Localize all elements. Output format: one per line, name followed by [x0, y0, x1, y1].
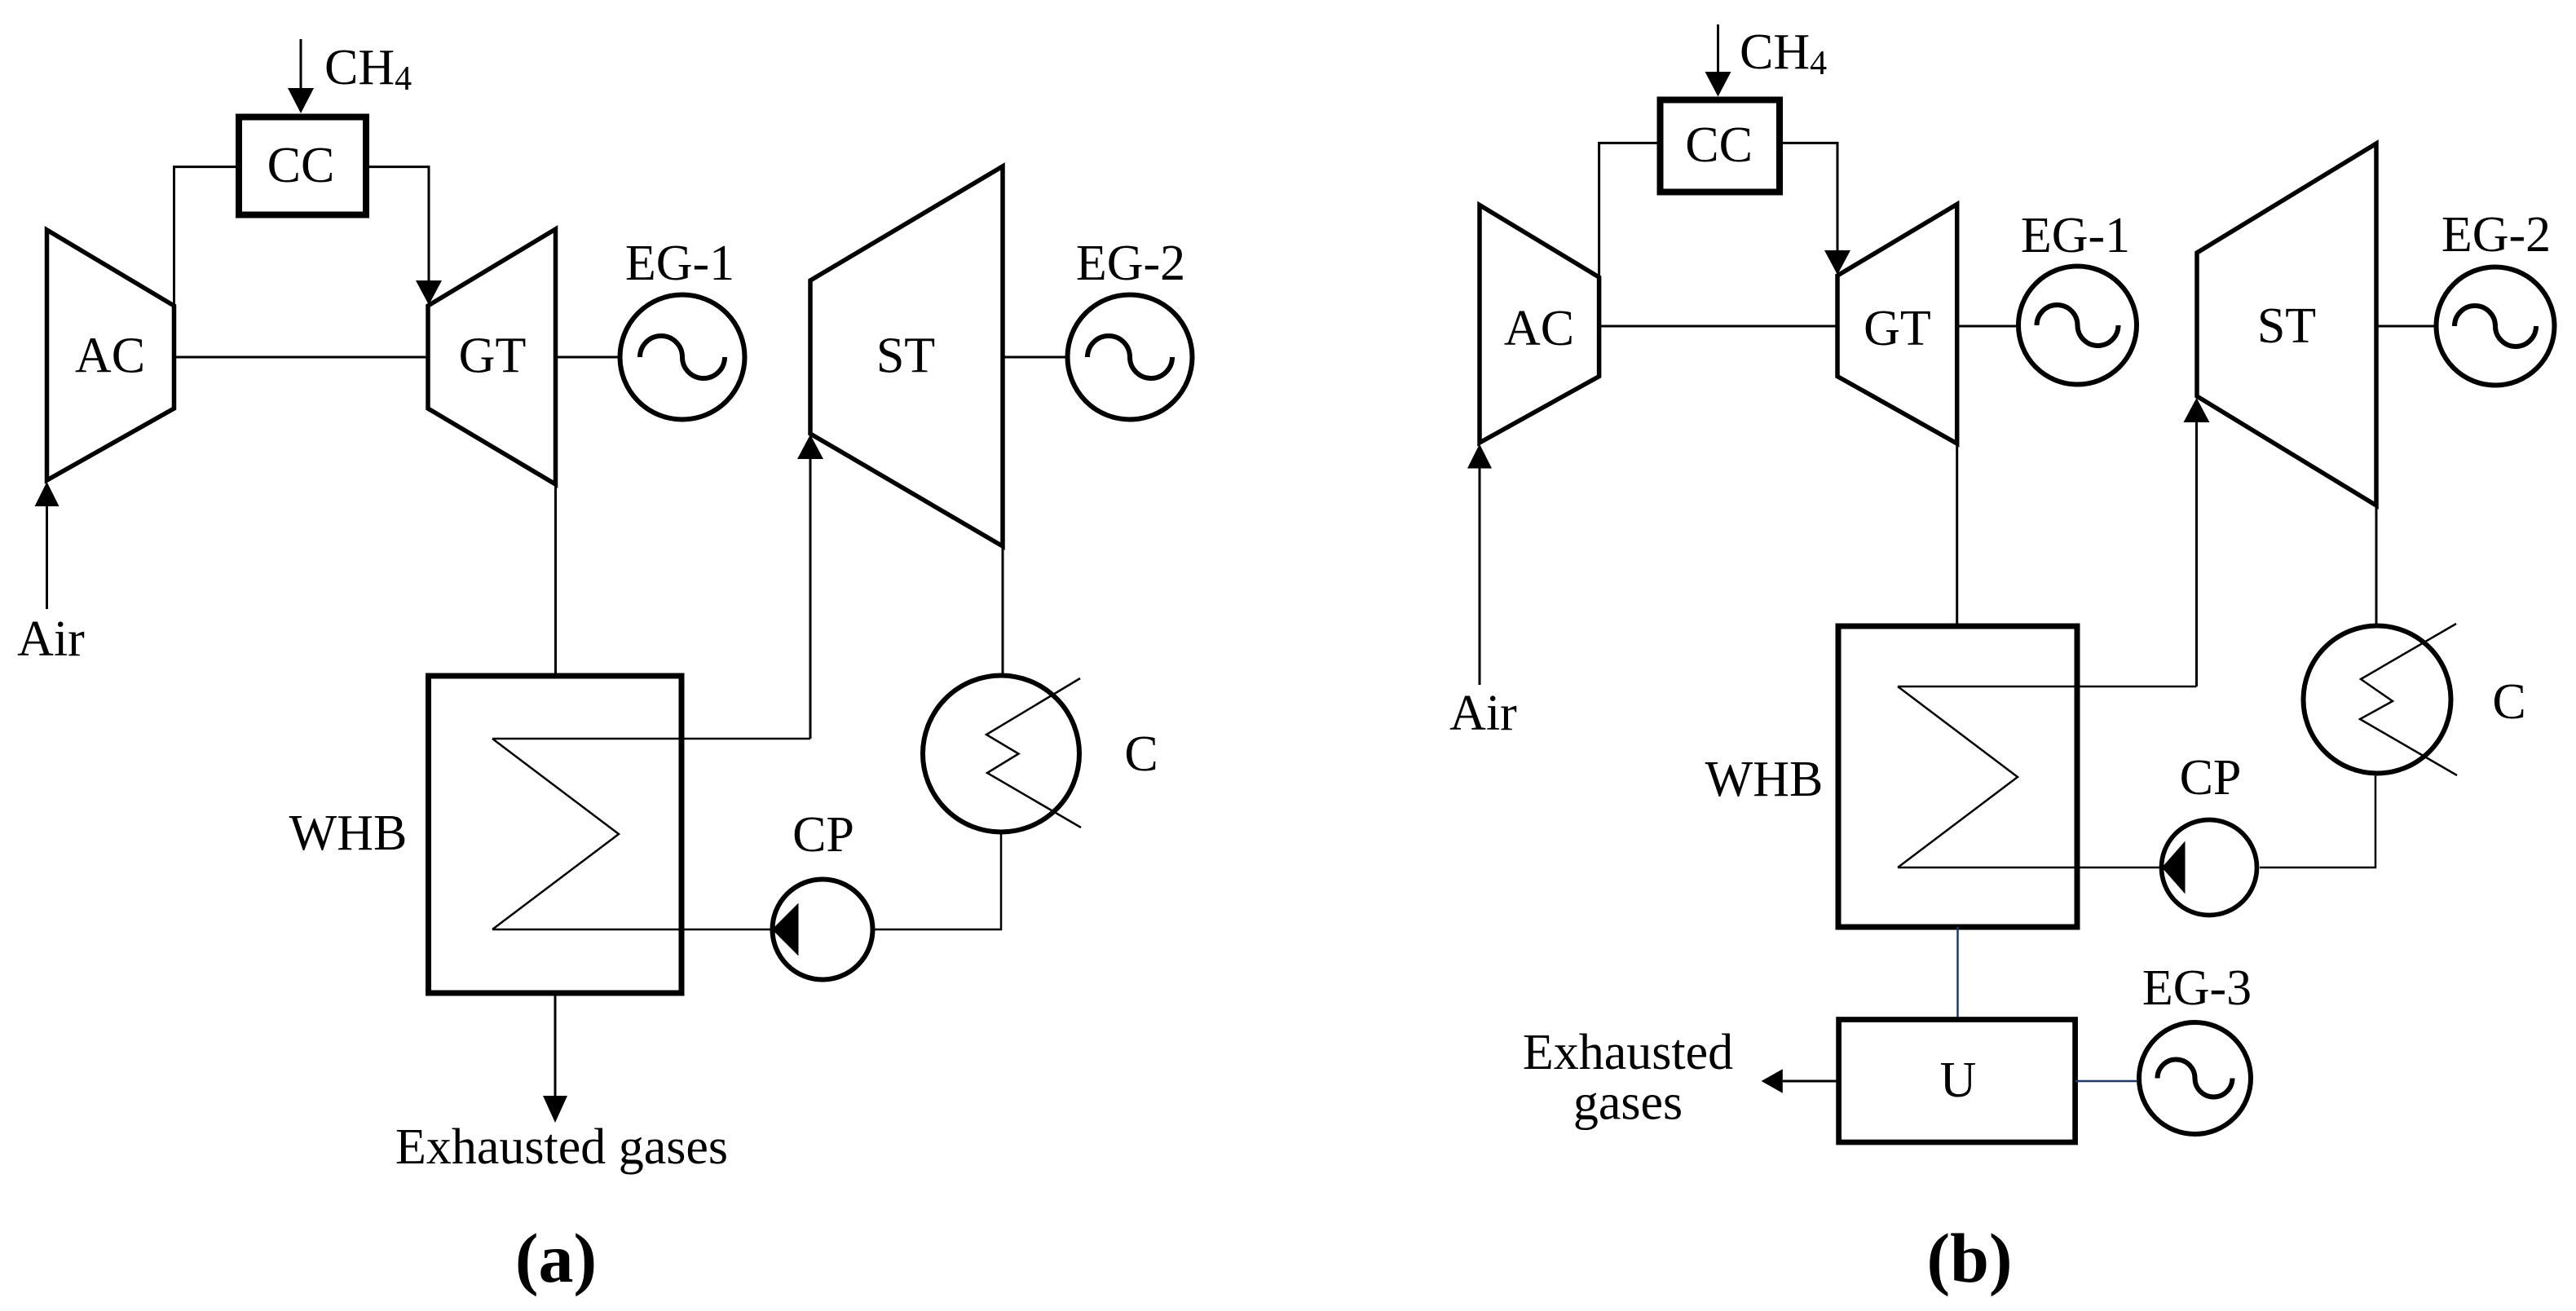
- condensate pump CP (b): [2162, 820, 2257, 916]
- sine wave EG-2 (b): [2455, 306, 2536, 347]
- svg-text:gases: gases: [1573, 1075, 1683, 1131]
- gas turbine GT (b): [1837, 205, 1957, 444]
- wire Air inlet (b): [1479, 469, 1481, 686]
- sine wave EG-1 (a): [640, 336, 725, 378]
- svg-text:GT: GT: [459, 329, 527, 384]
- wire feedwater line WHB bottom (b): [1898, 867, 2159, 869]
- wire steam riser to ST (b): [2195, 422, 2198, 686]
- arrowhead exhausted gases (b): [1762, 1069, 1783, 1093]
- generator EG-3 (b): [2139, 1022, 2251, 1134]
- svg-text:C: C: [1124, 726, 1158, 782]
- wire WHB to U (b) navy: [1956, 927, 1959, 1020]
- wire GT exhaust to WHB (a): [554, 484, 557, 676]
- svg-text:CP: CP: [792, 807, 854, 863]
- combustion chamber CC (a): [239, 117, 366, 215]
- wire condenser to pump (b): [2260, 776, 2375, 868]
- shaft ST-EG2 (b): [2376, 325, 2434, 328]
- condenser C (b): [2304, 626, 2451, 774]
- waste heat boiler WHB (a): [429, 676, 682, 993]
- wire CH4 inlet line (a): [300, 39, 302, 88]
- utilization unit U (b): [1839, 1020, 2075, 1143]
- steam turbine ST (a): [810, 166, 1003, 546]
- svg-text:Air: Air: [17, 611, 85, 667]
- svg-text:EG-2: EG-2: [2441, 207, 2551, 263]
- wire CC to AC (a): [174, 167, 240, 304]
- wire U to EG-3 (b) navy: [2075, 1080, 2137, 1083]
- condenser zigzag C (b): [2360, 624, 2457, 775]
- svg-text:CC: CC: [1685, 117, 1753, 173]
- arrowhead exhausted gases (a): [543, 1096, 567, 1123]
- condenser C (a): [923, 676, 1079, 832]
- wire feedwater line WHB bottom (a): [492, 929, 770, 931]
- wire CC to GT (b): [1779, 143, 1837, 250]
- sine wave EG-1 (b): [2037, 305, 2119, 346]
- wire GT exhaust to WHB (b): [1956, 444, 1958, 626]
- arrowhead CH4 into CC (a): [288, 88, 314, 113]
- arrowhead CC into GT (b): [1824, 250, 1850, 275]
- wire CC to AC (b): [1599, 143, 1660, 276]
- svg-text:AC: AC: [75, 329, 145, 384]
- svg-text:AC: AC: [1504, 301, 1574, 356]
- wire CH4 inlet line (b): [1717, 24, 1719, 72]
- wire ST exhaust to condenser (a): [1002, 546, 1004, 673]
- svg-text:(a): (a): [515, 1219, 597, 1297]
- steam turbine ST (b): [2197, 143, 2376, 505]
- wire Air inlet (a): [46, 506, 48, 609]
- svg-text:(b): (b): [1926, 1219, 2012, 1297]
- shaft AC-GT (b): [1599, 325, 1837, 328]
- wire steam line WHB top (b): [1898, 686, 2197, 688]
- coil zigzag WHB (b): [1898, 686, 2018, 867]
- svg-text:EG-3: EG-3: [2142, 960, 2252, 1016]
- svg-text:Air: Air: [1449, 686, 1517, 741]
- generator EG-1 (b): [2018, 267, 2137, 385]
- svg-text:EG-2: EG-2: [1076, 236, 1185, 291]
- wire steam riser to ST (a): [809, 459, 812, 739]
- generator EG-2 (b): [2437, 267, 2555, 386]
- air compressor AC (b): [1480, 205, 1599, 444]
- wire CC to GT (a): [366, 167, 429, 280]
- gas turbine GT (a): [428, 229, 556, 484]
- arrowhead Air into AC (a): [35, 482, 60, 506]
- svg-text:WHB: WHB: [289, 806, 408, 861]
- wire steam line WHB top (a): [492, 738, 810, 740]
- shaft ST-EG2 (a): [1003, 356, 1065, 359]
- pump triangle CP (a): [772, 903, 799, 956]
- air compressor AC (a): [47, 230, 174, 480]
- condenser zigzag C (a): [986, 678, 1081, 828]
- arrowhead CC into GT (a): [416, 280, 442, 305]
- svg-text:CC: CC: [267, 138, 335, 193]
- svg-text:ST: ST: [876, 329, 935, 384]
- generator EG-2 (a): [1068, 295, 1193, 420]
- pump triangle CP (b): [2162, 841, 2186, 894]
- coil zigzag WHB (a): [492, 739, 619, 929]
- arrowhead steam into ST (b): [2184, 398, 2210, 422]
- svg-text:Exhausted gases: Exhausted gases: [395, 1119, 728, 1175]
- arrowhead Air into AC (b): [1467, 444, 1492, 469]
- svg-text:C: C: [2492, 674, 2525, 730]
- arrowhead steam into ST (a): [797, 435, 823, 459]
- waste heat boiler WHB (b): [1838, 626, 2077, 927]
- combustion chamber CC (b): [1661, 100, 1780, 192]
- wire condenser to pump (a): [876, 834, 1002, 929]
- svg-text:EG-1: EG-1: [625, 236, 734, 291]
- sine wave EG-3 (b): [2158, 1060, 2233, 1097]
- svg-text:Exhausted: Exhausted: [1523, 1025, 1733, 1080]
- wire ST exhaust to condenser (b): [2375, 505, 2378, 624]
- arrowhead CH4 into CC (b): [1705, 72, 1731, 97]
- svg-text:ST: ST: [2257, 298, 2316, 354]
- sine wave EG-2 (a): [1087, 336, 1172, 378]
- svg-text:WHB: WHB: [1705, 752, 1824, 807]
- wire exhausted gases out of U (b): [1783, 1080, 1839, 1083]
- shaft GT-EG1 (a): [556, 356, 619, 359]
- wire WHB exhaust (a): [554, 993, 557, 1096]
- svg-text:U: U: [1940, 1053, 1977, 1108]
- shaft GT-EG1 (b): [1957, 325, 2016, 328]
- shaft AC-GT (a): [174, 356, 429, 359]
- svg-text:GT: GT: [1864, 301, 1931, 356]
- svg-text:CP: CP: [2180, 750, 2242, 806]
- generator EG-1 (a): [620, 295, 745, 420]
- svg-text:EG-1: EG-1: [2021, 208, 2130, 263]
- condensate pump CP (a): [773, 880, 873, 980]
